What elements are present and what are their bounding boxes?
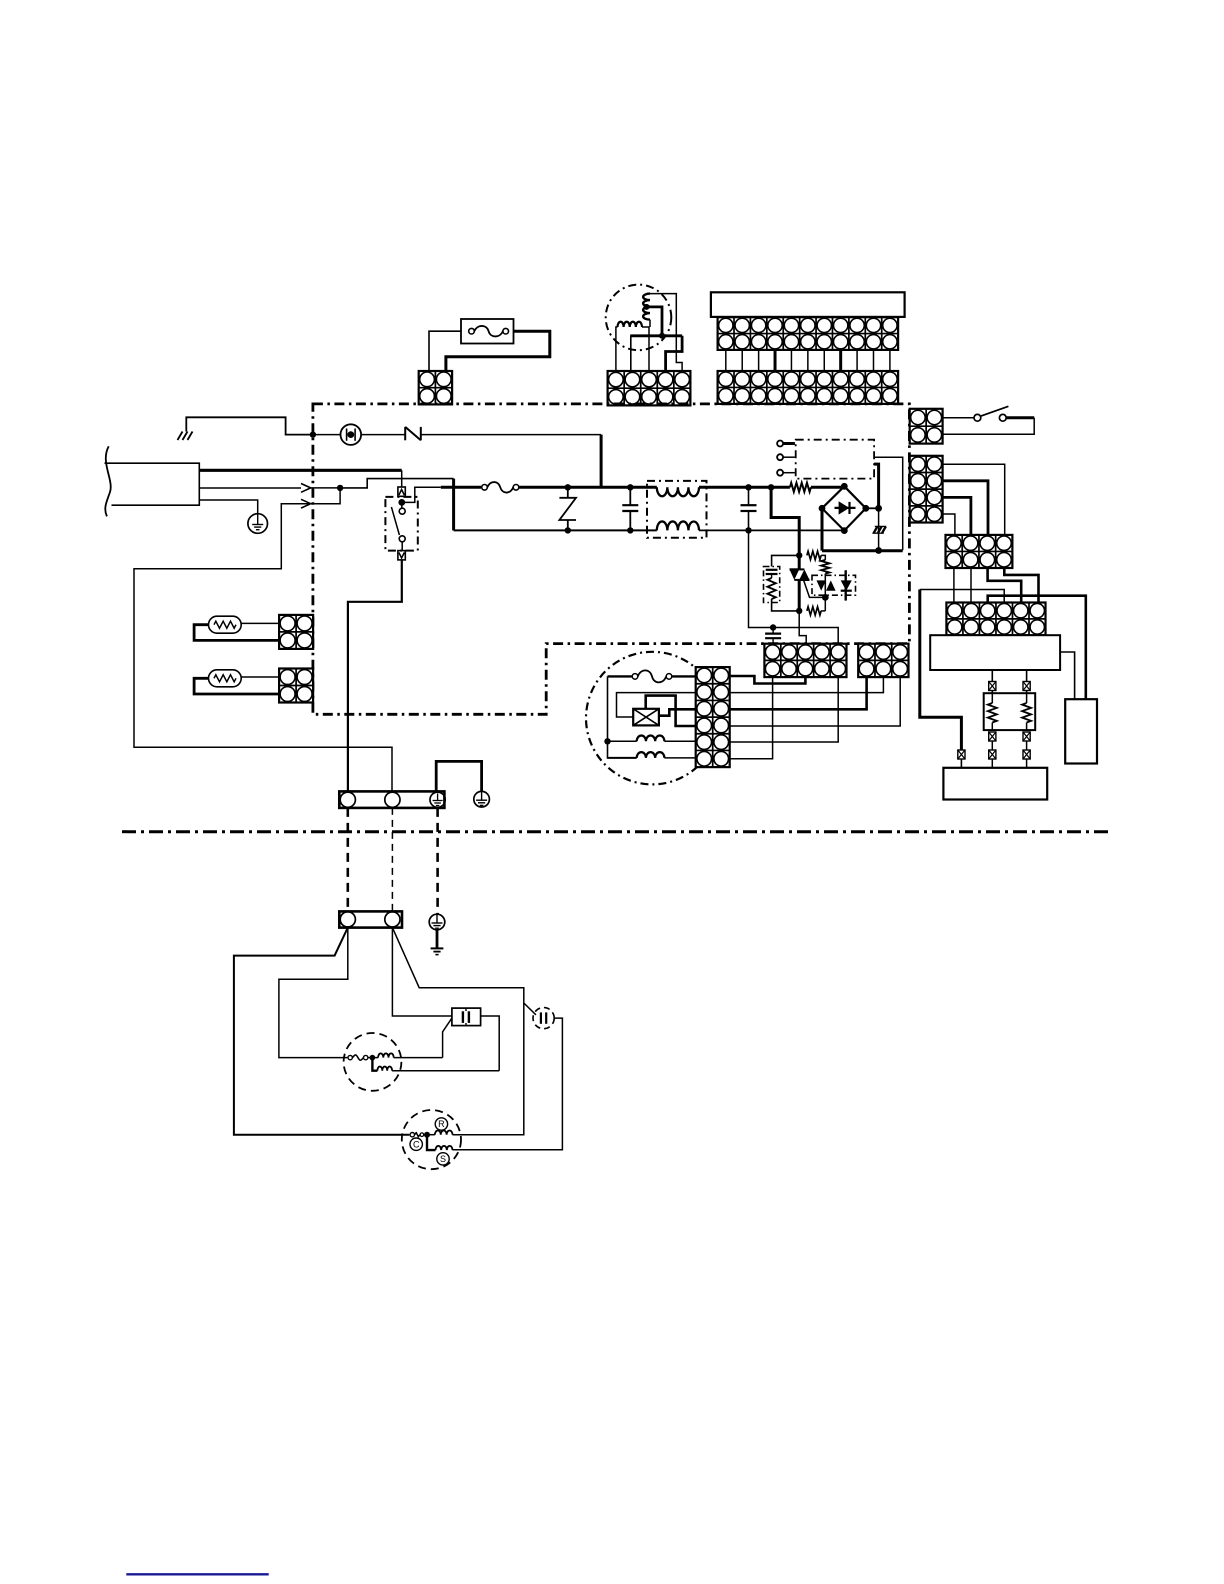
wire triac gate: [804, 580, 826, 598]
label C: [410, 1138, 422, 1150]
wire resistor feed 2: [1026, 670, 1028, 682]
wire FM pin4 to CN3 pin3: [730, 677, 901, 726]
wire CN-Q pin2 down: [970, 568, 972, 603]
reactor CN dashed box: [796, 440, 874, 479]
pin terminal 0c: [958, 750, 965, 759]
wire N jog (to main line): [340, 479, 454, 488]
fan motor FM1 dashed circle: [586, 652, 719, 785]
junction dot relay input: [398, 499, 405, 506]
wire outdoor earth down (bold): [436, 930, 439, 949]
line filter LF1 dashed box: [647, 481, 707, 538]
junction dot varistor top: [565, 484, 571, 490]
wire fan cap left lead: [443, 1018, 452, 1058]
svg-text:R: R: [438, 1119, 445, 1129]
pin terminal 2c: [1023, 750, 1030, 759]
wire T1 bus right to pin4: [666, 336, 683, 371]
earth circle (outdoor): [429, 914, 445, 930]
wire comp node: [424, 1134, 435, 1136]
wire plug L lead (bold): [199, 469, 401, 472]
relay contact lower: [399, 536, 405, 542]
wire plug E lead: [199, 500, 257, 515]
reactor terminal 1: [777, 441, 795, 447]
wire FM2 aux L (bold): [372, 1058, 377, 1071]
wire L line fuse to choke (bold): [519, 486, 657, 489]
thermal fuse N symbol: [405, 427, 421, 440]
connector CN3 3x2 block: [858, 644, 908, 677]
line filter LF1 top coil: [657, 487, 699, 496]
wire CN-P pin1: [943, 464, 1005, 535]
blue underline: [126, 1573, 268, 1575]
power terminal label box: [930, 635, 1060, 670]
wire T1 coil join: [649, 320, 651, 327]
wire pins to compressor box: [961, 759, 1026, 768]
connector CN-P 2x4 block: [910, 456, 943, 523]
fuse F1 box: [461, 319, 514, 344]
connector CN5 5x2 block: [764, 644, 846, 677]
wire to thermostat: [313, 434, 341, 436]
compressor capacitor plates: [541, 1012, 546, 1023]
wire T1 secondary right lead to pin3: [642, 327, 649, 371]
power cord curve: [105, 446, 110, 516]
junction dot C2 bottom: [745, 527, 751, 533]
wire fuse F2 lead-in (bold): [441, 486, 481, 489]
compressor C terminal: [410, 1132, 424, 1137]
junction dot C1 bottom: [627, 527, 633, 533]
wire R1 node to triac (bold): [771, 487, 799, 555]
earth jumper (bold): [436, 761, 481, 791]
snubber dashed box: [764, 567, 780, 603]
junction dot bridge right: [862, 505, 869, 512]
earth circle (indoor): [474, 791, 490, 807]
relay spade terminal (bottom): [398, 551, 405, 560]
wire fuse F1 right lead: [446, 331, 550, 371]
wire CN-P pin4: [943, 514, 955, 535]
wire diac to gate node: [824, 591, 826, 611]
pin terminal 2b: [1023, 732, 1030, 741]
indoor/outdoor separator dash-dot: [122, 830, 1110, 833]
junction dot gate node: [822, 594, 829, 601]
fan FM1 internal box: [633, 709, 659, 726]
thermostat (circle |o|): [341, 424, 362, 445]
wire comp S drop (bold): [427, 1135, 436, 1150]
wire SW2 return (bold): [1006, 416, 1034, 419]
wire T2 long run to terminal 2: [134, 504, 392, 792]
junction dot R1 input: [768, 484, 774, 490]
wire reactor box right (bold): [874, 464, 879, 508]
wire earth riser: [186, 417, 313, 434]
wire to CN pin5: [773, 628, 838, 644]
wire relay to terminal 1: [348, 560, 402, 792]
junction dot triac bottom: [796, 608, 802, 614]
junction dot bridge bottom: [841, 527, 848, 534]
wire R3 to diac: [824, 574, 826, 581]
relay blade: [391, 507, 399, 535]
capacitor C3: [765, 628, 781, 644]
wire N drop (bold): [452, 479, 455, 531]
compressor capacitor dashed circle: [533, 1008, 554, 1029]
switch SW2: [943, 406, 1009, 421]
relay SW1 dashed box: [385, 497, 417, 551]
diac dashed box: [812, 575, 856, 595]
thermistor TH2: [209, 670, 242, 687]
field wire 1 (dashed bold): [346, 808, 349, 912]
svg-text:S: S: [440, 1154, 446, 1164]
indoor control PCB dashed boundary: [313, 404, 910, 714]
wire T1out to compressor C: [234, 928, 409, 1135]
wire plug N lead: [199, 487, 301, 489]
compressor S winding: [436, 1146, 453, 1150]
snubber resistor: [767, 578, 775, 599]
outdoor terminal strip: [339, 911, 402, 927]
fan capacitor box: [452, 1008, 481, 1026]
wire long run (bold part): [920, 590, 962, 751]
connector CN-A 11x2 block (upper): [718, 317, 899, 350]
junction dot bridge top: [841, 483, 848, 490]
transformer T1 dashed circle: [606, 285, 672, 351]
compressor CM dashed circle: [402, 1110, 461, 1169]
wire N line choke to bridge: [699, 529, 844, 531]
fuse F2 symbol: [482, 482, 519, 493]
wire R1 to bridge top: [811, 486, 844, 489]
wire FM1 aux coil leads: [608, 757, 696, 759]
wire thermostat to thermal fuse: [361, 434, 405, 436]
transformer T1 primary coil (vertical): [643, 294, 650, 320]
wire TH1 leads: [194, 623, 279, 640]
junction dot FM2: [370, 1055, 376, 1061]
capacitor C2: [741, 487, 757, 530]
connector CN-T 5x2 block: [608, 371, 691, 405]
wire C2 node down: [749, 530, 774, 627]
junction dot boundary crossing: [310, 431, 316, 437]
wire L-bus vertical drop (bold): [600, 435, 603, 488]
label S: [437, 1153, 449, 1165]
junction dot N: [337, 485, 343, 491]
wire L to relay spade: [401, 470, 403, 487]
wire FM pin2 to CN3 pin2: [730, 677, 884, 693]
arrow N crossing: [301, 484, 311, 493]
line filter LF1 bottom coil: [657, 521, 699, 530]
fan motor FM2 dashed circle: [344, 1033, 402, 1091]
wire FM1 left bus: [607, 676, 609, 758]
connector CN-R 6x2 block: [946, 603, 1045, 636]
resistor R3: [821, 560, 829, 574]
indoor earth terminal: [430, 792, 445, 807]
connector CN-F 2x2 block: [419, 371, 452, 404]
relay contact upper: [399, 508, 405, 514]
wire T2out diag to comp R: [392, 928, 523, 1135]
wire long run (thin part): [920, 590, 1004, 603]
fan FM1 aux coil: [637, 752, 665, 758]
arrow T2 crossing: [301, 499, 311, 508]
junction dot C3: [770, 624, 776, 630]
wire bridge right to node: [866, 507, 879, 509]
snubber capacitor: [766, 570, 778, 578]
fan FM2 main coil: [378, 1053, 394, 1057]
wire R4 lead up: [821, 610, 825, 612]
reactor terminal 3: [777, 470, 795, 476]
junction dot compressor: [424, 1132, 430, 1138]
wire SW2 return loop: [943, 418, 1035, 434]
junction dot DC+ node: [875, 505, 882, 512]
connector CN-TH2 2x2 block: [279, 669, 313, 703]
wire CN-Q pin3 jog (bold): [988, 568, 1022, 603]
junction dot T1 bus: [659, 333, 665, 339]
wire fuse F1 left lead: [429, 331, 461, 371]
varistor ZNR1: [559, 487, 576, 530]
connector CN-FM 2x6 block: [696, 667, 730, 767]
wire FM pin5 to CN5 pin5: [730, 677, 839, 742]
aux component box: [1065, 699, 1097, 763]
pin terminal 1b: [989, 732, 996, 741]
pin terminal 2a: [1023, 682, 1030, 691]
reactor terminal 2: [777, 454, 795, 460]
wire relay dot to contact: [401, 502, 403, 508]
relay spade terminal (top): [398, 487, 405, 496]
wire R5 down: [991, 741, 993, 750]
resistor R4: [807, 607, 821, 615]
wire FM1 main coil leads: [608, 740, 696, 742]
wires CN-A to CN-B links: [726, 350, 890, 371]
wire TH2 leads: [194, 677, 279, 694]
wire T1 bus left to pin2: [630, 336, 632, 371]
wire T1 secondary left lead to pin1: [616, 327, 618, 371]
connector CN-S 2x2 block: [910, 409, 943, 444]
connector CN-TH1 2x2 block: [279, 615, 313, 649]
resistor R2: [807, 551, 821, 559]
svg-text:C: C: [413, 1139, 420, 1149]
junction dot varistor bottom: [565, 527, 571, 533]
compressor R winding: [435, 1130, 453, 1134]
wire T1out to fan motor: [279, 928, 348, 1058]
thermistor TH1: [122, 615, 1110, 1574]
wire into resistor box: [992, 691, 1026, 694]
diac D2: [817, 580, 836, 590]
connector CN-Q 4x2 block: [946, 535, 1013, 568]
wire N to junction: [311, 487, 340, 489]
wire T1 tap lead: [647, 307, 663, 336]
wire T1 bus (bold): [630, 334, 682, 337]
wire FM2 aux out: [392, 1070, 499, 1072]
wire FM1 ic left lead: [617, 693, 696, 717]
wire DC bottom bus (bold): [822, 549, 903, 552]
wire CN-P pin3 (bold): [943, 497, 971, 535]
wire snubber top: [772, 555, 800, 566]
transformer T1 secondary coil (horizontal): [618, 322, 643, 327]
wire T2out to fan cap: [392, 928, 452, 1016]
earth circle (plug): [248, 514, 268, 534]
fan FM2 thermal protector: [348, 1055, 368, 1060]
compressor terminal box: [943, 768, 1047, 800]
wire resistor feed 1: [991, 670, 993, 682]
junction dot FM1: [604, 738, 610, 744]
wire thermal fuse to L-bus drop: [421, 434, 601, 436]
fuse F1 symbol: [469, 326, 509, 337]
wire FM2 node: [368, 1057, 378, 1059]
wire T2 branch from N dot: [311, 488, 340, 504]
wire FM pin3 to CN3 pin1 (bold): [730, 677, 867, 709]
wire FM1 thermal left: [608, 675, 633, 677]
bridge DB1 diode symbol: [835, 501, 856, 514]
chassis ground (rectifier): [872, 526, 886, 533]
resistor R1: [790, 483, 811, 492]
junction dot triac top: [796, 552, 802, 558]
wire snubber bottom: [772, 599, 800, 611]
wire comp cap left diag: [524, 1003, 536, 1015]
wire R6 down: [1026, 741, 1028, 750]
wire R2 lead: [821, 555, 825, 560]
field wire 2 (dashed): [391, 808, 393, 912]
wire 6x2 pin3 to aux box (bold): [988, 596, 1086, 700]
junction dot DC bus: [875, 547, 882, 554]
wire relay out to fuse line: [402, 487, 441, 502]
resistor R6: [1022, 693, 1031, 730]
junction dot bridge left: [819, 505, 826, 512]
wire FM1 thermal right to pin1: [672, 675, 696, 677]
wire FM2 main out: [394, 1057, 443, 1059]
field wire earth (dashed bold): [436, 808, 439, 915]
wire comp cap right lead: [453, 1018, 563, 1150]
wire relay contact to spade: [401, 542, 403, 551]
wire CN-Q pin4 jog (bold): [1004, 568, 1038, 603]
wire FM1 box right (bold): [659, 709, 696, 715]
diode D3: [841, 570, 852, 600]
pin terminal 1c: [989, 750, 996, 759]
wire bridge left down (bold): [821, 508, 824, 550]
fan FM1 main coil: [637, 736, 665, 742]
wire triac out to CN pin: [799, 611, 806, 644]
wire DC node down: [878, 508, 880, 550]
wire FM pin1 to CN5 pin3: [730, 676, 806, 684]
wire FM1 box top loop (bold): [646, 696, 696, 726]
junction dot C1 top: [627, 484, 633, 490]
wire L line choke to resistor (bold): [699, 486, 790, 489]
chassis ground (top-left): [178, 432, 193, 441]
resistor R5: [988, 693, 997, 730]
indoor terminal strip: [339, 791, 444, 808]
fan FM2 aux coil: [377, 1066, 392, 1070]
wire CN-P pin2 (bold): [943, 481, 988, 535]
power plug body: [105, 463, 200, 505]
connector header bar: [711, 292, 905, 317]
fan FM1 thermal protector: [632, 670, 672, 682]
wire reactor box right (thin): [874, 457, 903, 550]
wire FM pin6 to CN5 pin1: [730, 677, 773, 759]
chassis ground (outdoor): [431, 948, 444, 954]
wire CN-Q pin1 down: [953, 568, 955, 603]
current sense resistor box: [984, 693, 1035, 730]
transformer T1 tap junction dot: [644, 304, 650, 310]
bridge rectifier DB1 diamond: [822, 486, 866, 530]
capacitor C1: [622, 487, 638, 530]
pin terminal 1a: [989, 682, 996, 691]
triac Q1: [790, 555, 810, 611]
label R: [435, 1118, 447, 1130]
wire label box to aux box: [1060, 652, 1075, 699]
wire T1 top lead: [650, 294, 682, 371]
junction dot C2 top: [745, 484, 751, 490]
wire N line left segment: [454, 529, 657, 531]
connector CN-B 11x2 block (lower): [718, 371, 899, 404]
wire fan cap right lead: [481, 1016, 500, 1071]
